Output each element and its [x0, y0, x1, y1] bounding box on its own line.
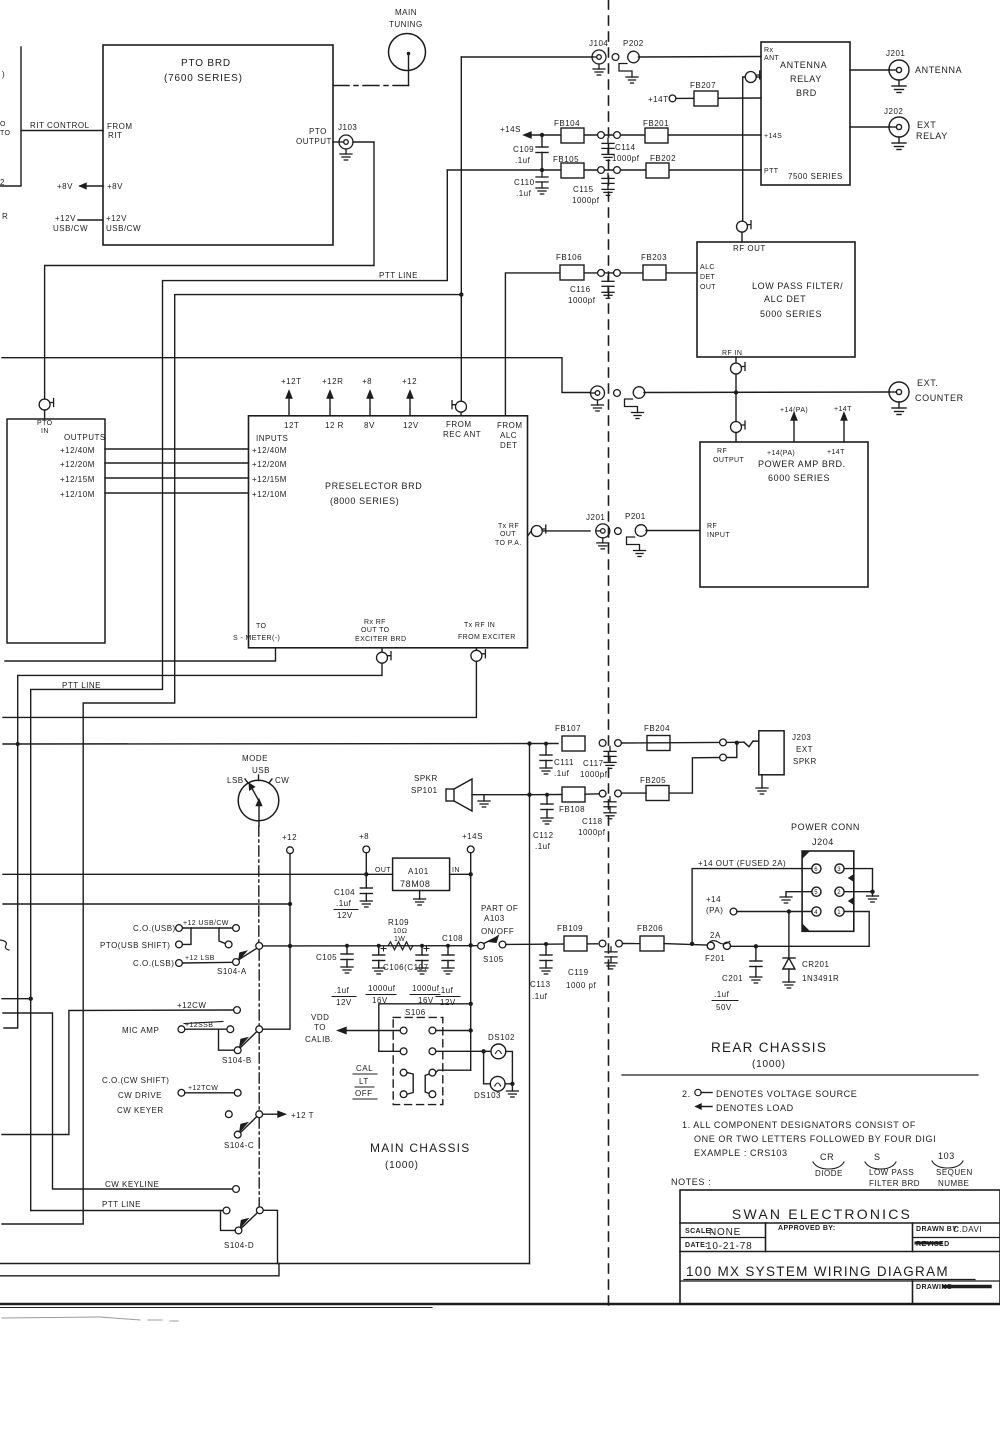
- svg-text:+14S: +14S: [462, 832, 483, 841]
- rotary shaft link (dash-dot): [258, 826, 260, 1206]
- feedthrough nodes spkr row 2: [599, 790, 621, 797]
- junction dot REC ANT branch: [459, 292, 463, 296]
- svg-text:J204: J204: [812, 837, 834, 847]
- capacitor C110: [514, 168, 548, 198]
- svg-text:C105: C105: [316, 953, 337, 962]
- svg-text:FB108: FB108: [559, 805, 585, 814]
- svg-text:12T: 12T: [284, 421, 299, 430]
- svg-text:PTT LINE: PTT LINE: [62, 681, 101, 690]
- svg-text:CR: CR: [820, 1152, 834, 1162]
- svg-text:S104-D: S104-D: [224, 1241, 254, 1250]
- svg-text:1: 1: [837, 910, 841, 916]
- main tuning knob: [389, 8, 426, 71]
- svg-text:103: 103: [938, 1151, 955, 1161]
- capacitor C115: [572, 173, 614, 205]
- svg-text:RELAY: RELAY: [790, 74, 822, 84]
- link mid contact to USB line: [219, 928, 225, 944]
- svg-text:C.O.(USB): C.O.(USB): [133, 924, 176, 933]
- svg-text:RELAY: RELAY: [916, 131, 948, 141]
- svg-text:1000pf: 1000pf: [568, 296, 596, 305]
- antenna relay board box: [761, 42, 850, 185]
- wire VDD to calib arrow: [305, 1013, 400, 1044]
- junction dot C201 tap: [754, 944, 758, 948]
- title block: drawing title: [684, 1264, 975, 1280]
- switch S104-C label: [224, 1141, 254, 1150]
- svg-text:USB/CW: USB/CW: [106, 224, 141, 233]
- wire nodes to FB206: [622, 943, 640, 945]
- wire +12CW row: [2, 1001, 234, 1135]
- switch S104-C pole: [256, 1111, 263, 1118]
- svg-text:R109: R109: [388, 918, 409, 927]
- connector J (counter row jack): [591, 386, 605, 411]
- svg-text:C.O.(LSB): C.O.(LSB): [133, 959, 174, 968]
- contact circle C.O.(USB) row right: [233, 925, 240, 932]
- svg-text:+14 OUT (FUSED 2A): +14 OUT (FUSED 2A): [698, 859, 786, 868]
- junction dot +12 to rail: [288, 944, 292, 948]
- ferrite bead FB106: [556, 253, 584, 280]
- svg-text:FILTER BRD: FILTER BRD: [869, 1179, 920, 1188]
- input node C.O.(USB): [133, 924, 176, 933]
- wire +12TCW: [185, 1085, 235, 1093]
- junction dot speaker row: [527, 793, 531, 797]
- svg-text:POWER CONN: POWER CONN: [791, 822, 860, 832]
- capacitor C106: [366, 944, 396, 1005]
- contact circle C.O.(USB) row left: [176, 925, 183, 932]
- svg-text:EXT.: EXT.: [917, 378, 938, 388]
- wire: band input 10M: [105, 492, 249, 494]
- feedthrough nodes ALC row: [598, 270, 621, 277]
- svg-text:3: 3: [837, 867, 841, 873]
- svg-text:+14T: +14T: [648, 95, 668, 104]
- example designator breakdown braces: [813, 1151, 973, 1188]
- ferrite bead FB204: [644, 724, 670, 751]
- CAL LT OFF labels: [353, 1064, 377, 1099]
- svg-text:USB: USB: [252, 766, 270, 775]
- svg-text:IN: IN: [41, 428, 49, 435]
- relay board labels: [764, 47, 843, 181]
- svg-text:(1000): (1000): [752, 1059, 786, 1070]
- svg-text:SP101: SP101: [411, 786, 438, 795]
- MAIN CHASSIS caption: [370, 1141, 470, 1171]
- wire: P202 to relay box Rx ANT: [639, 56, 762, 59]
- title block: company name: [732, 1206, 912, 1222]
- svg-text:FB204: FB204: [644, 724, 670, 733]
- svg-text:ALC DET: ALC DET: [764, 294, 806, 304]
- switch S105 right contact: [499, 941, 506, 948]
- S106 contact 3L: [400, 1069, 407, 1076]
- svg-text:C118: C118: [582, 817, 603, 826]
- outputs box: [7, 419, 105, 643]
- contact circle S104-C moving: [234, 1131, 241, 1138]
- power connector J204 body: [802, 851, 854, 931]
- svg-text:DET: DET: [500, 441, 518, 450]
- sheet bottom border: [0, 1304, 1000, 1308]
- svg-text:C117: C117: [583, 759, 604, 768]
- regulator A101 box: [393, 858, 450, 890]
- wire second spkr contact: [726, 743, 736, 758]
- capacitor C117: [580, 746, 616, 779]
- svg-text:CR201: CR201: [802, 960, 829, 969]
- svg-text:1000 pf: 1000 pf: [566, 981, 596, 990]
- wire: A101 IN line: [450, 873, 471, 875]
- switch S104-D label: [224, 1241, 254, 1250]
- svg-text:OUTPUT: OUTPUT: [296, 137, 332, 146]
- svg-text:DS102: DS102: [488, 1033, 515, 1042]
- svg-text:SWAN ELECTRONICS: SWAN ELECTRONICS: [732, 1206, 912, 1222]
- capacitor C105: [316, 944, 356, 1007]
- contact circle +12SSB: [227, 1026, 234, 1033]
- switch S104-D arm: [241, 1213, 258, 1229]
- svg-text:J201: J201: [586, 513, 605, 522]
- title block: revised cell: [916, 1241, 950, 1248]
- svg-text:FB201: FB201: [643, 119, 669, 128]
- svg-text:OUTPUTS: OUTPUTS: [64, 433, 106, 442]
- svg-text:+12/10M: +12/10M: [252, 490, 287, 499]
- wire S106 1R to +14S vert: [436, 1030, 471, 1032]
- wire +12T output arrow: [263, 1111, 314, 1120]
- svg-text:IN: IN: [452, 867, 460, 874]
- svg-text:TO P.A.: TO P.A.: [495, 540, 522, 547]
- title block: approved by cell: [778, 1225, 836, 1232]
- wire: P201 to power amp RF INPUT: [646, 530, 700, 532]
- capacitor C112: [533, 793, 554, 851]
- link S104-D contact hook: [221, 1211, 236, 1231]
- wire: Tx RF IN stepping left: [3, 661, 476, 717]
- capacitor C201: [712, 946, 762, 1012]
- svg-text:S: S: [874, 1152, 881, 1162]
- connector Tx RF IN from exciter: [471, 648, 486, 661]
- connector relay RF (to lowpass): [745, 71, 761, 83]
- svg-text:ONE OR TWO LETTERS FOLLOWED: ONE OR TWO LETTERS FOLLOWED BY FOUR DIGI: [694, 1134, 936, 1144]
- svg-text:.1uf: .1uf: [554, 769, 570, 778]
- svg-text:A103: A103: [484, 914, 505, 923]
- A101 labels: [375, 867, 460, 889]
- low pass filter box: [697, 242, 855, 357]
- preselector board box: [249, 416, 528, 648]
- connector J201 (PA drive jack): [586, 513, 610, 549]
- lamp ground: [506, 1084, 518, 1097]
- svg-text:12 R: 12 R: [325, 421, 344, 430]
- feedthrough nodes spkr row 1: [599, 740, 621, 747]
- contact circle S104-C left: [225, 1111, 232, 1118]
- label PTT LINE (middle): [62, 681, 101, 690]
- svg-text:4: 4: [814, 910, 818, 916]
- wire +14 PA to pin 4: [737, 911, 812, 913]
- switch S104-D pole: [256, 1207, 263, 1214]
- wire: PTO shift to USB line: [182, 928, 191, 944]
- svg-text:12V: 12V: [440, 998, 456, 1007]
- labels CW shift group: [102, 1076, 169, 1115]
- svg-text:+14T: +14T: [827, 449, 845, 456]
- svg-text:1000uf: 1000uf: [368, 984, 396, 993]
- wire: PTT line stepping left: [31, 170, 448, 1211]
- speaker SP101: [411, 774, 530, 811]
- wire: band input 20M: [105, 462, 249, 464]
- svg-text:1000uf: 1000uf: [412, 984, 440, 993]
- svg-text:DET: DET: [700, 274, 716, 281]
- svg-text:CALIB.: CALIB.: [305, 1035, 333, 1044]
- wire: band input 40M: [105, 448, 249, 450]
- J204 pin 4: [812, 907, 821, 916]
- svg-text:ANTENNA: ANTENNA: [780, 60, 827, 70]
- svg-text:+14T: +14T: [834, 406, 852, 413]
- svg-text:SPKR: SPKR: [793, 757, 817, 766]
- A101 ground: [414, 891, 426, 906]
- svg-text:FB109: FB109: [557, 924, 583, 933]
- svg-text:R: R: [2, 212, 8, 221]
- S106 contact 4L: [400, 1091, 407, 1098]
- junction dot S106 1R: [469, 1028, 473, 1032]
- svg-text:P201: P201: [625, 512, 646, 521]
- svg-text:1000pf: 1000pf: [572, 196, 600, 205]
- MODE switch knob: [227, 754, 289, 826]
- svg-text:RF OUT: RF OUT: [733, 244, 766, 253]
- svg-text:ALC: ALC: [700, 264, 715, 271]
- svg-text:.1uf: .1uf: [515, 156, 531, 165]
- note 2: voltage source symbol: [682, 1089, 857, 1099]
- junction dot lamp rail top: [481, 1049, 485, 1053]
- svg-text:C110: C110: [514, 178, 535, 187]
- svg-text:1W: 1W: [394, 936, 405, 943]
- capacitor C107: [410, 944, 440, 1005]
- wire S106 2R to lamps: [436, 1050, 491, 1052]
- svg-text:C113: C113: [530, 980, 551, 989]
- svg-text:1000pf: 1000pf: [580, 770, 608, 779]
- switch S104-B label: [222, 1056, 252, 1065]
- pin label PTO OUTPUT: [296, 127, 332, 146]
- svg-text:DIODE: DIODE: [815, 1169, 843, 1178]
- svg-text:+14(PA): +14(PA): [780, 407, 808, 414]
- wire: main +12 switched rail: [263, 945, 477, 947]
- wire +12 USB/CW: [182, 920, 232, 928]
- junction dot +12 to H4: [288, 902, 292, 906]
- svg-text:J104: J104: [589, 39, 608, 48]
- svg-text:S104-C: S104-C: [224, 1141, 254, 1150]
- capacitor C104: [334, 874, 372, 920]
- lamp DS103: [474, 1076, 505, 1100]
- input node MIC AMP: [122, 1026, 185, 1035]
- partial board box at left edge: [0, 47, 21, 186]
- wire rail to FB109: [506, 943, 598, 946]
- supply arrow +12R: [322, 377, 343, 416]
- svg-text:PTT LINE: PTT LINE: [379, 271, 418, 280]
- connector FROM REC ANT: [452, 401, 467, 416]
- J204 pin 3: [835, 864, 844, 873]
- svg-text:+12/10M: +12/10M: [60, 490, 95, 499]
- svg-text:REC ANT: REC ANT: [443, 430, 481, 439]
- svg-text:ANT: ANT: [764, 55, 780, 62]
- svg-text:PTO: PTO: [37, 420, 53, 427]
- svg-text:2A: 2A: [710, 931, 721, 940]
- capacitor C119: [566, 947, 617, 990]
- svg-text:ANTENNA: ANTENNA: [915, 65, 962, 75]
- wire pin1 to rail: [791, 912, 869, 947]
- svg-text:+12/20M: +12/20M: [60, 460, 95, 469]
- svg-text:RIT CONTROL: RIT CONTROL: [30, 121, 90, 130]
- contact circle S104-A mid: [225, 941, 232, 948]
- svg-text:DENOTES LOAD: DENOTES LOAD: [716, 1103, 794, 1113]
- connector J202: [850, 107, 948, 150]
- svg-text:1000pf: 1000pf: [578, 828, 606, 837]
- junction dot +14S to rail: [469, 943, 473, 947]
- short stub line A at left: [2, 998, 31, 1000]
- wire audio line to left edge: [0, 1263, 530, 1265]
- power amp +14T source arrow: [834, 406, 852, 442]
- junction dot H5 to audio vertical: [527, 741, 531, 745]
- svg-text:S104-A: S104-A: [217, 967, 247, 976]
- lowpass labels: [700, 264, 843, 357]
- REAR CHASSIS caption: [711, 1040, 827, 1070]
- outputs box labels: [60, 433, 106, 499]
- junction dot +14 out at rail: [690, 942, 694, 946]
- ferrite bead FB104: [554, 119, 584, 143]
- PTO board box: [103, 45, 333, 245]
- preselector labels: [233, 420, 523, 643]
- svg-text:USB/CW: USB/CW: [53, 224, 88, 233]
- svg-text:LOW PASS: LOW PASS: [869, 1168, 914, 1177]
- svg-text:LOW PASS FILTER/: LOW PASS FILTER/: [752, 281, 843, 291]
- junction dot line A: [29, 997, 33, 1001]
- switch S104-A arm: [239, 948, 257, 959]
- svg-text:LSB: LSB: [227, 776, 244, 785]
- contact circle PTT: [223, 1207, 230, 1214]
- svg-text:C116: C116: [570, 285, 591, 294]
- feedthrough nodes PTT row: [598, 167, 621, 174]
- wire: PTO output to PTO IN (down-left): [45, 142, 374, 399]
- svg-text:Tx RF: Tx RF: [498, 523, 519, 530]
- supply arrow +8: [362, 377, 373, 416]
- svg-text:2: 2: [837, 890, 841, 896]
- svg-text:.1uf: .1uf: [714, 990, 730, 999]
- wire: RF IN to power amp RF OUTPUT: [735, 374, 737, 422]
- svg-text:100 MX SYSTEM WIRING DIAGRA: 100 MX SYSTEM WIRING DIAGRAM: [686, 1264, 949, 1279]
- contact circle S104-A LSB: [233, 959, 240, 966]
- svg-text:DATE:: DATE:: [685, 1242, 708, 1249]
- lamp left rail: [484, 1051, 491, 1084]
- svg-text:FB205: FB205: [640, 776, 666, 785]
- svg-text:+12/20M: +12/20M: [252, 460, 287, 469]
- lamp right rail: [505, 1051, 512, 1083]
- wire fuse to corner: [731, 945, 792, 947]
- svg-text:.1uf: .1uf: [334, 986, 350, 995]
- svg-text:+12V: +12V: [55, 214, 76, 223]
- node counter row: [614, 390, 621, 397]
- svg-text:FROM: FROM: [446, 420, 472, 429]
- S106 contact 3R: [429, 1069, 436, 1076]
- wire pin2 stub: [844, 891, 872, 893]
- J204 pin 1: [835, 907, 844, 916]
- wire audio vertical: [529, 744, 531, 1264]
- svg-text:+12/40M: +12/40M: [60, 446, 95, 455]
- J204 pin 5: [812, 887, 821, 896]
- svg-text:DENOTES VOLTAGE SOURCE: DENOTES VOLTAGE SOURCE: [716, 1089, 857, 1099]
- wire PTT LINE bottom: [31, 1200, 223, 1211]
- wire: Tx RF OUT to J201: [542, 530, 590, 532]
- svg-text:TO: TO: [256, 623, 267, 630]
- svg-text:+8: +8: [362, 377, 372, 386]
- svg-text:SPKR: SPKR: [414, 774, 438, 783]
- wire: J104 Rx ANT line vertical from corner: [461, 56, 593, 58]
- svg-text:RIT: RIT: [108, 131, 122, 140]
- svg-text:+14S: +14S: [500, 125, 521, 134]
- wire: riser x461 down to REC ANT branch: [460, 57, 462, 401]
- svg-text:7500 SERIES: 7500 SERIES: [788, 172, 843, 181]
- wire FB204 to J203: [621, 741, 758, 747]
- svg-text:12V: 12V: [403, 421, 419, 430]
- svg-text:REAR CHASSIS: REAR CHASSIS: [711, 1040, 827, 1055]
- capacitor C108: [436, 934, 463, 1007]
- wire: +12 bus H4 to left edge: [3, 903, 290, 905]
- svg-text:+12R: +12R: [322, 377, 343, 386]
- svg-text:DS103: DS103: [474, 1091, 501, 1100]
- wire: +14S row to relay: [500, 125, 761, 138]
- capacitor C116: [568, 276, 614, 305]
- pin label FROM RIT: [107, 122, 133, 140]
- S106 contact 1L: [400, 1027, 407, 1034]
- wire speaker row to FB108: [530, 793, 600, 796]
- input node C.O.(LSB): [133, 959, 182, 968]
- svg-text:10Ω: 10Ω: [393, 928, 407, 935]
- svg-text:TO: TO: [314, 1023, 326, 1032]
- svg-text:FB104: FB104: [554, 119, 580, 128]
- svg-text:S104-B: S104-B: [222, 1056, 252, 1065]
- title block: drawn by cell: [916, 1225, 982, 1234]
- capacitor C114: [602, 138, 640, 163]
- wire: +14S ALC rail long horizontal y358: [2, 358, 590, 393]
- ferrite bead FB202: [646, 154, 676, 178]
- wire: band input 15M: [105, 477, 249, 479]
- wire: +12V USB/CW input: [53, 214, 103, 233]
- ferrite bead FB203: [641, 253, 667, 280]
- svg-text:INPUTS: INPUTS: [256, 434, 288, 443]
- svg-text:NONE: NONE: [709, 1227, 741, 1238]
- svg-text:C115: C115: [573, 185, 594, 194]
- svg-text:.1uf: .1uf: [516, 189, 532, 198]
- switch S104-B pole: [256, 1026, 263, 1033]
- power amp board box: [700, 442, 868, 587]
- svg-text:10-21-78: 10-21-78: [706, 1241, 752, 1252]
- ferrite bead FB207: [676, 81, 761, 106]
- svg-text:OFF: OFF: [355, 1089, 373, 1098]
- svg-text:CW KEYER: CW KEYER: [117, 1106, 164, 1115]
- title block: scale cell: [685, 1227, 741, 1238]
- svg-text:12V: 12V: [336, 998, 352, 1007]
- svg-text:FB106: FB106: [556, 253, 582, 262]
- svg-text:(7600 SERIES): (7600 SERIES): [164, 73, 243, 84]
- title block: drawing number cell: [916, 1284, 990, 1291]
- svg-text:P202: P202: [623, 39, 644, 48]
- svg-text:6: 6: [814, 867, 818, 873]
- svg-text:RF: RF: [717, 448, 727, 455]
- svg-text:+12CW: +12CW: [177, 1001, 206, 1010]
- svg-text:+12: +12: [402, 377, 417, 386]
- svg-text:.1uf: .1uf: [532, 992, 548, 1001]
- wire S106 2L loop to top: [379, 1004, 468, 1052]
- svg-text:POWER AMP BRD.: POWER AMP BRD.: [758, 459, 846, 469]
- feedthrough nodes FB109 row: [599, 940, 622, 947]
- node second spkr contact: [720, 754, 727, 761]
- connector P201: [625, 512, 647, 557]
- svg-text:12V: 12V: [337, 911, 353, 920]
- svg-text:+14: +14: [706, 895, 721, 904]
- switch S105 labels: [481, 904, 518, 964]
- svg-text:PTO: PTO: [309, 127, 327, 136]
- svg-text:CAL: CAL: [356, 1064, 373, 1073]
- label RF OUT: [733, 244, 766, 253]
- svg-text:FB206: FB206: [637, 924, 663, 933]
- svg-text:EXCITER BRD: EXCITER BRD: [355, 636, 406, 643]
- svg-text:Rx RF: Rx RF: [364, 619, 386, 626]
